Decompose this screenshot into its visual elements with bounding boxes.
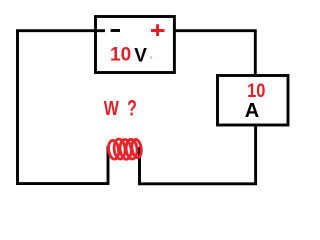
svg-text:10: 10	[247, 80, 265, 102]
svg-text:W: W	[104, 97, 120, 119]
svg-text:10: 10	[110, 45, 131, 66]
svg-text:A: A	[245, 100, 259, 122]
ammeter box M1	[218, 76, 289, 126]
battery box U1	[96, 17, 175, 73]
inductor coil L1	[107, 139, 142, 160]
battery plus terminal mark	[151, 24, 165, 36]
wire: left loop from battery left terminal down and along bottom to coil left stub	[18, 31, 109, 184]
wire: ammeter bottom down and along bottom to coil right stub	[140, 125, 256, 184]
svg-text:?: ?	[127, 97, 137, 121]
stray red dot after V	[150, 56, 152, 58]
battery minus terminal mark	[111, 29, 121, 32]
svg-text:V: V	[134, 45, 147, 66]
wire: battery right terminal to ammeter top	[175, 31, 255, 76]
